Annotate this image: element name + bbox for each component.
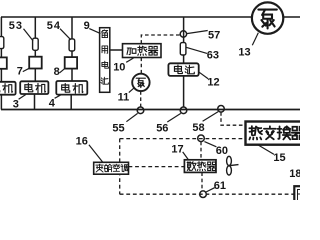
dashed duct: node 60 to radiator top: [200, 142, 202, 160]
motor M3 box 4 (电机): [56, 81, 87, 95]
battery line vertical: [183, 17, 185, 107]
svg-text:61: 61: [214, 180, 226, 192]
fan 59 blades: [227, 156, 232, 165]
controller box branch 1: [0, 57, 7, 68]
leader for 17: [183, 152, 189, 160]
dashed duct: top edge of cabin section: [120, 138, 246, 140]
svg-text:11: 11: [118, 92, 130, 104]
battery text 电池: [174, 65, 182, 74]
wire: backup battery to heater: [110, 49, 123, 51]
heat exchanger text: [249, 126, 262, 139]
controller box 7: [29, 57, 42, 69]
wire: motor branch 1 vertical: [0, 17, 2, 110]
resistor 63: [180, 43, 186, 55]
svg-text:10: 10: [113, 62, 125, 74]
svg-text:7: 7: [17, 65, 23, 77]
leader for 8: [60, 68, 65, 72]
node 60: [198, 135, 205, 142]
svg-text:3: 3: [13, 99, 19, 111]
svg-text:55: 55: [112, 123, 124, 135]
leader for 13: [252, 33, 258, 46]
leader for 58: [203, 112, 219, 122]
dashed duct: pump 11 to node 55: [140, 91, 142, 107]
dashed duct: bottom edge of cabin section: [120, 193, 294, 195]
wire: top bus left segment: [1, 16, 252, 18]
node 61: [200, 191, 207, 198]
dashed duct: AC to radiator: [129, 166, 185, 168]
valve 54: [69, 39, 75, 51]
leader for 3: [19, 95, 26, 100]
battery 12 box (电池): [168, 63, 198, 76]
svg-text:56: 56: [156, 123, 168, 135]
wire: top bus right of pump 13: [284, 16, 301, 18]
svg-text:60: 60: [216, 145, 228, 157]
valve 53: [33, 38, 39, 50]
radiator 17 box (散热器): [184, 160, 216, 173]
svg-text:57: 57: [208, 30, 220, 42]
leader for 56: [167, 113, 181, 122]
cabin AC 16 box (乘舱空调): [94, 162, 129, 174]
pump 11 circle (泵): [132, 74, 149, 91]
svg-text:16: 16: [76, 136, 88, 148]
leader for 4: [55, 95, 62, 99]
svg-text:9: 9: [84, 20, 90, 32]
leader for 53: [24, 29, 34, 41]
svg-text:18: 18: [289, 168, 300, 180]
dashed duct: radiator bottom to node 61: [201, 172, 203, 191]
backup battery 9 box (备用电池): [100, 28, 110, 93]
node 58: [218, 106, 225, 113]
motor M3 text 电机: [62, 84, 70, 93]
radiator text: [187, 162, 196, 171]
backup battery text: [101, 30, 107, 38]
dashed duct: heater bottom to pump 11: [140, 58, 142, 74]
motor M2 text 电机: [25, 83, 33, 92]
motor M1 box (电机, cut at edge): [0, 82, 16, 95]
valve (52) branch 1: [0, 37, 4, 49]
leader for 57: [187, 31, 208, 34]
leader for 15: [258, 145, 274, 154]
leader for 63: [186, 47, 207, 53]
svg-text:15: 15: [273, 152, 285, 164]
pump 13 circle (泵): [252, 2, 283, 33]
leader for 16: [89, 145, 103, 162]
leader for 61: [206, 188, 215, 192]
leader for 7: [23, 68, 30, 71]
controller box 8: [65, 57, 77, 69]
dashed duct: node 58 to heat exchanger: [221, 112, 245, 125]
heater 10 box (加热器): [123, 44, 162, 58]
cabin AC text: [96, 164, 103, 172]
leader for 54: [60, 29, 71, 40]
svg-text:63: 63: [207, 50, 219, 62]
node 57: [180, 31, 186, 37]
svg-text:12: 12: [207, 77, 219, 89]
leader for 12: [199, 72, 209, 79]
leader for 60: [204, 142, 216, 147]
node 55: [137, 107, 144, 114]
wire: motor branch 3 vertical: [70, 17, 73, 110]
heater text: [127, 48, 136, 55]
dashed duct: left edge of cabin section: [119, 139, 121, 195]
box 18 (cut at corner): [294, 186, 312, 204]
svg-text:8: 8: [54, 66, 60, 78]
svg-text:4: 4: [49, 98, 56, 110]
leader for 9: [89, 29, 100, 34]
node 56: [180, 107, 187, 114]
heat exchanger 15 box (热交换器): [246, 122, 310, 145]
svg-text:58: 58: [192, 122, 204, 134]
leader for 10: [126, 58, 133, 62]
leader for 55: [126, 113, 137, 121]
wire: motor branch 2 vertical: [34, 17, 37, 110]
svg-text:53: 53: [9, 20, 23, 32]
svg-text:13: 13: [238, 47, 250, 59]
motor M2 box 3 (电机): [20, 81, 48, 94]
svg-text:17: 17: [171, 144, 183, 156]
fan shaft: [230, 165, 239, 166]
svg-text:54: 54: [47, 20, 61, 32]
wire: bottom bus: [1, 109, 300, 111]
dashed duct: heater top to node 57: [141, 35, 180, 44]
leader for 11: [129, 87, 135, 92]
